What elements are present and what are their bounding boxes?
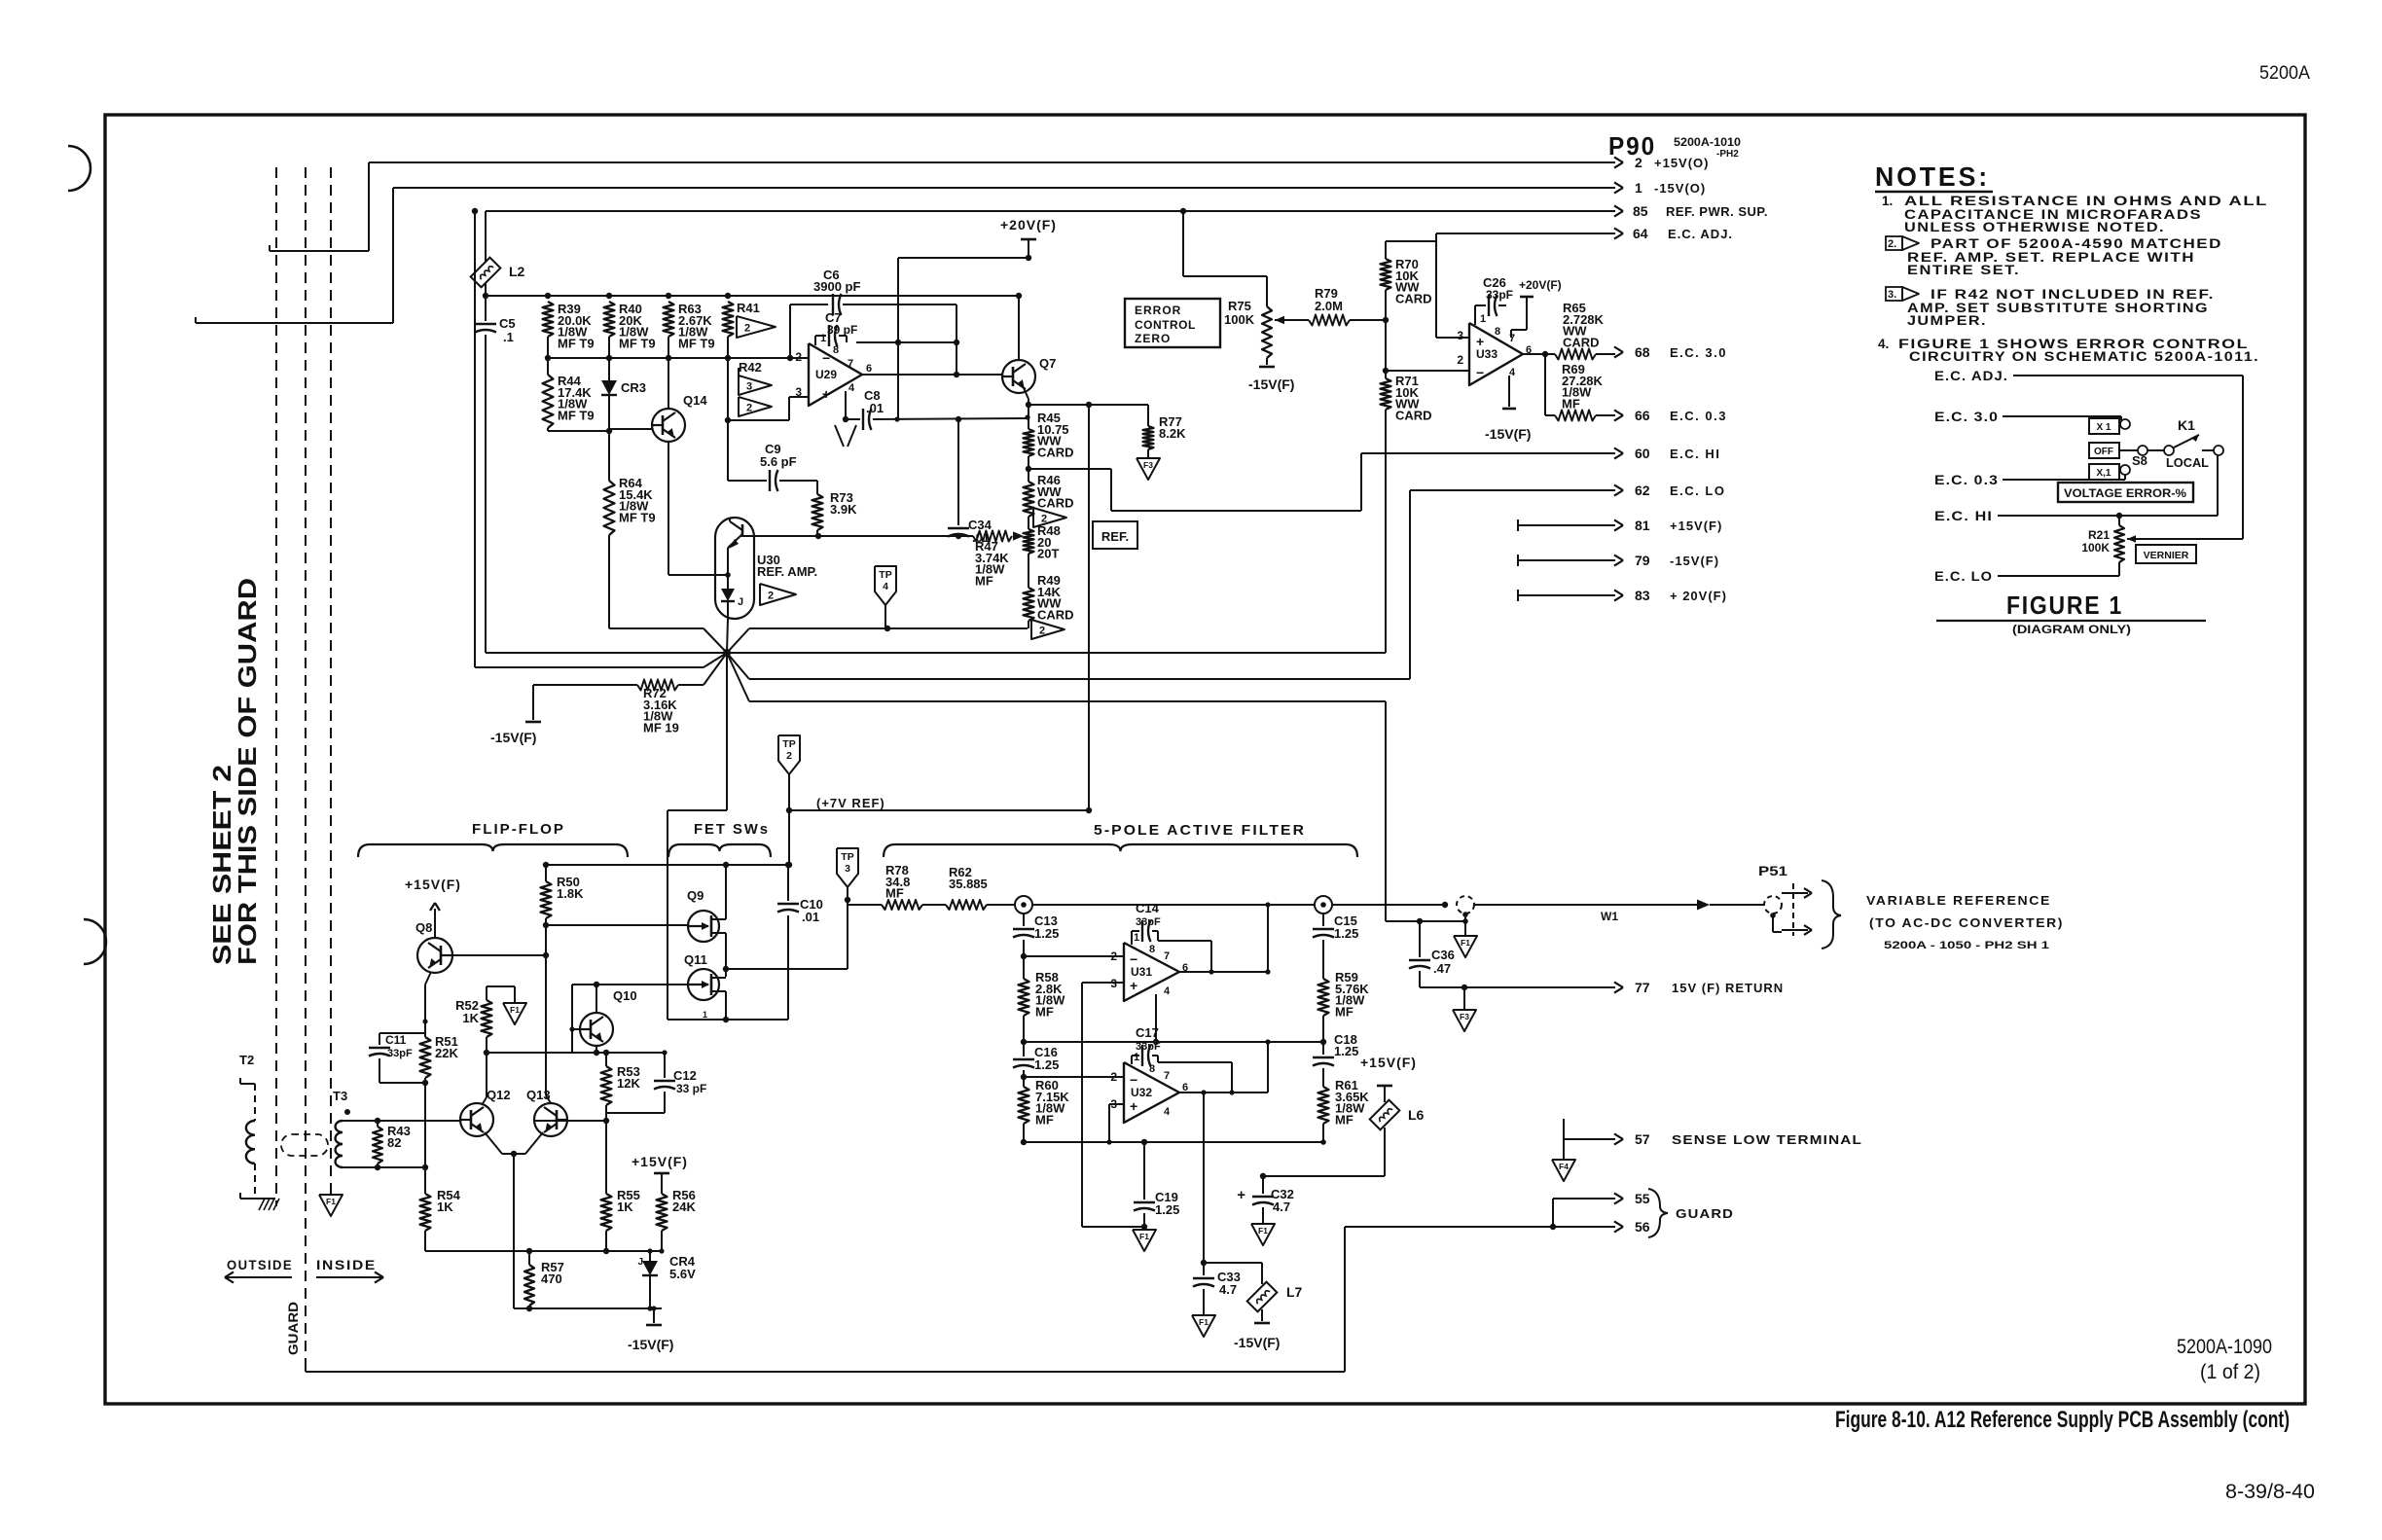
svg-text:T3: T3: [333, 1089, 347, 1103]
guard wire from bottom: [1345, 1226, 1553, 1228]
svg-text:+20V(F): +20V(F): [1000, 217, 1057, 233]
ground under U29: [835, 425, 844, 447]
svg-text:E.C. 0.3: E.C. 0.3: [1670, 409, 1727, 423]
svg-text:8: 8: [1149, 944, 1155, 955]
svg-text:REF. PWR. SUP.: REF. PWR. SUP.: [1666, 204, 1768, 219]
svg-text:33pF: 33pF: [1136, 1041, 1161, 1053]
transistor Q14: [652, 409, 685, 442]
svg-text:7: 7: [1509, 333, 1515, 344]
svg-text:+: +: [1130, 1098, 1137, 1114]
pot R75: [1266, 276, 1268, 306]
svg-text:1: 1: [1134, 1052, 1139, 1063]
svg-text:R75: R75: [1228, 299, 1251, 313]
svg-text:TP: TP: [782, 738, 795, 750]
inside arrow: [316, 1276, 381, 1278]
note 2 flag: [1886, 236, 1902, 250]
resistor R46: [1024, 482, 1034, 517]
svg-text:55: 55: [1635, 1191, 1650, 1206]
svg-text:F1: F1: [1258, 1226, 1268, 1236]
svg-text:ERROR: ERROR: [1135, 304, 1181, 317]
guard bottom wire: [305, 1361, 307, 1372]
svg-text:J: J: [637, 1257, 643, 1268]
capacitor C10 .01: [777, 903, 799, 905]
svg-text:F1: F1: [326, 1197, 336, 1206]
svg-text:−: −: [1130, 951, 1137, 967]
P90 pin 1 arrow: [1614, 182, 1623, 188]
transistor Q12: [460, 1103, 493, 1136]
svg-text:39 pF: 39 pF: [827, 323, 857, 337]
wire to P90 pin 2 +15V(O): [269, 245, 271, 251]
ground F1 under C33: [1192, 1315, 1215, 1337]
svg-text:C12: C12: [673, 1068, 697, 1083]
svg-text:4: 4: [848, 382, 855, 394]
stage link wire: [1024, 1041, 1323, 1043]
emitter node wire: [1029, 404, 1148, 406]
U30 base entry from Q14: [668, 574, 728, 576]
svg-text:Q14: Q14: [683, 393, 707, 408]
T3 base wire: [343, 1120, 460, 1122]
U32 output down riser: [1203, 1092, 1205, 1263]
P90 pin 68 arrow: [1614, 346, 1623, 352]
svg-text:1K: 1K: [462, 1011, 479, 1025]
svg-text:+15V(F): +15V(F): [1670, 519, 1722, 533]
Q13 base wire: [534, 1120, 606, 1122]
svg-text:33pF: 33pF: [387, 1048, 413, 1059]
FLIP-FLOP brace: [358, 844, 628, 857]
svg-text:+15V(F): +15V(F): [632, 1154, 688, 1169]
svg-text:X 1: X 1: [2096, 422, 2111, 433]
svg-text:5.6V: 5.6V: [669, 1267, 696, 1281]
svg-text:66: 66: [1635, 408, 1650, 423]
wire U30 to star east 646: [609, 627, 704, 629]
svg-text:2: 2: [746, 403, 752, 414]
resistor R56: [657, 1194, 668, 1231]
svg-text:+15V(F): +15V(F): [1360, 1055, 1417, 1070]
svg-text:ENTIRE SET.: ENTIRE SET.: [1907, 263, 2020, 277]
page border frame: [105, 115, 2305, 1404]
pot R21: [2118, 516, 2120, 525]
svg-text:L6: L6: [1408, 1107, 1425, 1123]
resistor R71: [1385, 371, 1387, 378]
shield junction B: [1315, 896, 1332, 913]
star junction node: [723, 649, 731, 657]
U31 pin4 drop: [1155, 994, 1157, 1042]
resistor R45: [1028, 405, 1029, 429]
resistor R77: [1147, 405, 1149, 426]
FET Q9: [688, 911, 719, 942]
resistor R78: [848, 904, 882, 906]
svg-text:62: 62: [1635, 483, 1650, 498]
svg-text:2: 2: [768, 591, 774, 602]
svg-text:FLIP-FLOP: FLIP-FLOP: [472, 821, 565, 838]
X.1 switch box: [2089, 464, 2119, 480]
op-amp U29: [809, 343, 862, 406]
U31 inverting input wire: [1024, 955, 1124, 957]
capacitor C17 33pF: [1132, 1055, 1139, 1057]
main signal line: [1032, 904, 1315, 906]
R75 top riser to 85 wire: [1183, 275, 1267, 277]
svg-text:MF: MF: [885, 886, 904, 901]
wire 64 E.C. ADJ: [1436, 233, 1615, 234]
capacitor C6 3900pF feedback: [790, 304, 828, 305]
U31 pin3 riser: [1082, 982, 1124, 984]
ERROR CONTROL ZERO box: [1125, 299, 1220, 347]
Q10 emitter to bus: [595, 1046, 597, 1053]
capacitor C14 33pF: [1132, 930, 1139, 932]
star east 698 wire to E.C. LO: [727, 653, 749, 679]
svg-text:24K: 24K: [672, 1200, 696, 1214]
U29 output wire to Q7: [862, 374, 1002, 376]
svg-text:E.C. LO: E.C. LO: [1934, 568, 1993, 584]
E.C. HI wire from divider: [1029, 468, 1111, 470]
svg-text:1: 1: [1134, 932, 1139, 944]
op-amp U32: [1124, 1062, 1179, 1123]
svg-text:CARD: CARD: [1563, 335, 1600, 349]
svg-text:8: 8: [1495, 326, 1500, 338]
capacitor C13: [1023, 913, 1025, 926]
55 56 guard wires: [1553, 1198, 1615, 1200]
filter bottom wire: [1024, 1141, 1323, 1143]
svg-text:L2: L2: [509, 264, 525, 279]
-15V(F) terminal left: [532, 685, 534, 720]
svg-text:4: 4: [1509, 367, 1516, 378]
resistor R52 to ground: [487, 985, 515, 987]
svg-text:C11: C11: [385, 1033, 407, 1047]
zener CR4: [649, 1251, 651, 1261]
svg-text:.47: .47: [1433, 961, 1451, 976]
guard shield dashed line outer: [275, 167, 277, 1206]
note 3 flag: [1886, 287, 1902, 301]
svg-text:2: 2: [1039, 626, 1045, 637]
resistor R39: [543, 302, 554, 337]
svg-text:Q8: Q8: [415, 920, 432, 935]
U31 feedback loop: [1158, 940, 1211, 942]
svg-text:K1: K1: [2178, 417, 2195, 433]
svg-text:C17: C17: [1136, 1025, 1159, 1040]
svg-text:3: 3: [1457, 329, 1463, 342]
svg-text:C36: C36: [1431, 948, 1455, 962]
diode CR3: [608, 358, 610, 380]
svg-text:2: 2: [1110, 1070, 1117, 1084]
svg-text:+20V(F): +20V(F): [1519, 278, 1562, 292]
svg-text:OFF: OFF: [2094, 447, 2113, 457]
svg-text:2: 2: [795, 350, 802, 364]
svg-text:FOR THIS SIDE OF GUARD: FOR THIS SIDE OF GUARD: [233, 578, 262, 965]
svg-text:3900 pF: 3900 pF: [813, 279, 860, 294]
svg-text:C14: C14: [1136, 901, 1160, 915]
capacitor C7 39pF: [815, 335, 826, 337]
svg-text:1K: 1K: [437, 1200, 453, 1214]
svg-text:83: 83: [1635, 588, 1650, 603]
svg-text:85: 85: [1633, 203, 1648, 219]
svg-text:2.0M: 2.0M: [1315, 299, 1343, 313]
svg-text:1: 1: [1635, 180, 1642, 196]
svg-text:+15V(O): +15V(O): [1654, 156, 1710, 170]
svg-text:GUARD: GUARD: [285, 1302, 301, 1355]
svg-text:6: 6: [866, 363, 872, 375]
capacitor C12 33pF: [664, 1053, 666, 1078]
svg-text:FET SWs: FET SWs: [694, 821, 770, 838]
Q12 Q13 emitter join: [485, 1132, 502, 1154]
inner box left riser: [474, 212, 476, 667]
P90 pin 66 arrow: [1614, 410, 1623, 415]
resistor R58: [1023, 956, 1025, 979]
svg-text:1.25: 1.25: [1334, 926, 1358, 941]
svg-text:MF: MF: [1562, 396, 1580, 411]
transistor Q10: [580, 1013, 613, 1046]
shield junction A: [1015, 896, 1032, 913]
svg-text:U31: U31: [1131, 965, 1152, 979]
OFF switch box: [2089, 443, 2119, 458]
svg-text:E.C. ADJ.: E.C. ADJ.: [1668, 227, 1733, 241]
svg-text:CONTROL: CONTROL: [1135, 318, 1196, 332]
capacitor C15: [1322, 913, 1324, 926]
svg-text:81: 81: [1635, 518, 1650, 533]
svg-text:77: 77: [1635, 980, 1650, 995]
VOLTAGE ERROR box: [2058, 483, 2193, 502]
svg-text:+: +: [822, 386, 830, 402]
Q8 base wire: [452, 954, 546, 956]
capacitor C5: [485, 296, 487, 321]
svg-text:CARD: CARD: [1037, 607, 1074, 622]
svg-text:MF T9: MF T9: [558, 408, 595, 422]
svg-text:57: 57: [1635, 1131, 1650, 1147]
svg-text:7: 7: [1164, 950, 1170, 962]
capacitor C26 33pF: [1475, 304, 1486, 306]
flip-flop bottom bus: [425, 1250, 662, 1252]
svg-text:F3: F3: [1143, 460, 1153, 470]
U33 inverting input wire: [1385, 320, 1387, 371]
57 sense low terminal: [1563, 1119, 1565, 1160]
main top rail: [486, 295, 1019, 297]
op-amp U33: [1469, 323, 1523, 385]
svg-text:F1: F1: [1461, 938, 1470, 948]
P90 pin 64 arrow: [1614, 228, 1623, 233]
outside arrow: [227, 1276, 292, 1278]
resistor R53: [605, 1053, 607, 1066]
resistor R60: [1023, 1077, 1025, 1087]
ground F1 under C19: [1143, 1227, 1145, 1230]
-15V(F) under R75: [1259, 366, 1275, 369]
svg-text:1.: 1.: [1882, 194, 1893, 208]
svg-text:20T: 20T: [1037, 547, 1059, 561]
ground F1 at output: [1464, 914, 1466, 936]
svg-text:F1: F1: [1139, 1232, 1149, 1241]
svg-text:+ 20V(F): + 20V(F): [1670, 589, 1727, 603]
svg-text:Q10: Q10: [613, 988, 637, 1003]
svg-text:T2: T2: [239, 1053, 254, 1067]
svg-text:MF: MF: [1035, 1112, 1054, 1127]
svg-text:Q13: Q13: [526, 1088, 551, 1102]
capacitor C11 33pF: [379, 1032, 425, 1034]
svg-text:MF T9: MF T9: [619, 336, 656, 350]
svg-text:2: 2: [1110, 949, 1117, 963]
wire to P90 pin 1 -15V(O): [195, 317, 197, 323]
transistor Q7: [1002, 360, 1035, 393]
flip-flop top rail: [546, 864, 789, 866]
svg-text:1: 1: [1480, 313, 1486, 325]
capacitor C33 4.7: [1193, 1277, 1214, 1279]
svg-text:7: 7: [848, 358, 853, 370]
svg-text:OUTSIDE: OUTSIDE: [227, 1257, 293, 1272]
svg-text:470: 470: [541, 1271, 562, 1286]
svg-text:REF. AMP.: REF. AMP.: [757, 564, 817, 579]
svg-text:REF.: REF.: [1101, 529, 1129, 544]
resistor R54: [420, 1194, 431, 1231]
test point TP3: [837, 848, 858, 887]
svg-text:79: 79: [1635, 553, 1650, 568]
guard shield dashed line middle: [305, 167, 307, 1361]
svg-text:3.9K: 3.9K: [830, 502, 857, 517]
svg-text:MF: MF: [1035, 1004, 1054, 1019]
svg-text:82: 82: [387, 1135, 401, 1150]
svg-text:8: 8: [833, 344, 839, 356]
U29 inverting input rail: [548, 357, 809, 359]
svg-text:CIRCUITRY ON SCHEMATIC 5200: CIRCUITRY ON SCHEMATIC 5200A-1011.: [1909, 349, 2259, 364]
svg-text:(+7V REF): (+7V REF): [816, 796, 885, 810]
svg-text:.1: .1: [503, 330, 514, 344]
P51 brace: [1822, 880, 1841, 949]
svg-text:MF: MF: [1335, 1112, 1353, 1127]
C36 / 77 return junction: [1386, 920, 1465, 922]
svg-text:8.2K: 8.2K: [1159, 426, 1186, 441]
svg-text:56: 56: [1635, 1219, 1650, 1235]
svg-text:Q11: Q11: [684, 952, 707, 967]
svg-text:(1 of 2): (1 of 2): [2200, 1361, 2260, 1383]
transistor Q13: [534, 1103, 567, 1136]
svg-text:TP: TP: [879, 569, 891, 581]
guard shield dashed line inner: [330, 167, 332, 1189]
svg-text:1.25: 1.25: [1034, 1057, 1059, 1072]
svg-text:ZERO: ZERO: [1135, 332, 1171, 345]
svg-text:4: 4: [1164, 985, 1171, 997]
svg-text:7: 7: [1164, 1070, 1170, 1082]
svg-text:+: +: [1237, 1187, 1245, 1203]
svg-text:L7: L7: [1286, 1284, 1303, 1300]
P90 pin 81 stub: [1518, 524, 1615, 526]
shield connector dashed: [1457, 896, 1474, 913]
resistor R64: [608, 431, 610, 481]
svg-text:2: 2: [1457, 353, 1463, 367]
svg-text:4.: 4.: [1878, 337, 1889, 351]
Q9 gate wire: [546, 924, 688, 926]
P90 pin 60 arrow: [1614, 448, 1623, 453]
-15V(F) terminal bottom: [653, 1308, 655, 1323]
guard cable dashed capsule: [281, 1134, 328, 1156]
P51 interface lines: [1772, 915, 1774, 932]
5-pole filter brace: [884, 844, 1357, 857]
svg-text:4: 4: [883, 581, 888, 592]
U30 collector wire and R47: [754, 535, 973, 537]
svg-text:35.885: 35.885: [949, 877, 988, 891]
svg-text:12K: 12K: [617, 1076, 640, 1091]
svg-text:F1: F1: [510, 1005, 520, 1015]
FET Q11: [688, 969, 719, 1000]
svg-text:1: 1: [820, 333, 826, 344]
svg-text:4.7: 4.7: [1219, 1282, 1237, 1297]
svg-text:J: J: [738, 596, 743, 608]
FET SWs brace: [668, 844, 771, 857]
ground F3 below: [1463, 987, 1465, 1010]
ground F3 under R77: [1137, 458, 1160, 480]
svg-text:JUMPER.: JUMPER.: [1907, 313, 1987, 328]
svg-text:IF R42 NOT INCLUDED IN RE: IF R42 NOT INCLUDED IN REF.: [1931, 287, 2215, 302]
svg-text:33pF: 33pF: [1136, 916, 1161, 928]
P90 pin 79 stub: [1518, 559, 1615, 561]
op-amp U31: [1124, 943, 1179, 1001]
svg-text:P51: P51: [1758, 863, 1787, 878]
svg-text:U32: U32: [1131, 1086, 1152, 1099]
svg-text:1.25: 1.25: [1334, 1044, 1358, 1058]
svg-text:2: 2: [786, 750, 792, 762]
star through wire 671: [486, 652, 1386, 654]
svg-text:PART OF 5200A-4590 MATCHED: PART OF 5200A-4590 MATCHED: [1931, 236, 2222, 251]
punch hole marks: [68, 146, 90, 191]
svg-text:MF T9: MF T9: [678, 336, 715, 350]
P90 pin 85 arrow: [1614, 205, 1623, 211]
svg-text:3: 3: [845, 863, 850, 875]
capacitor C9 5.6pF: [728, 480, 767, 482]
svg-text:E.C. ADJ.: E.C. ADJ.: [1934, 368, 2008, 383]
svg-text:CARD: CARD: [1395, 291, 1432, 305]
capacitor C16: [1023, 1042, 1025, 1057]
guard brace: [1648, 1189, 1668, 1237]
resistor R61: [1318, 1087, 1329, 1124]
svg-text:TP: TP: [841, 851, 853, 863]
test point TP2: [778, 735, 800, 774]
svg-text:VOLTAGE ERROR-%: VOLTAGE ERROR-%: [2064, 486, 2186, 500]
svg-text:VARIABLE REFERENCE: VARIABLE REFERENCE: [1866, 893, 2051, 908]
svg-text:4.7: 4.7: [1273, 1200, 1290, 1214]
resistor R62: [922, 904, 946, 906]
svg-text:SENSE LOW TERMINAL: SENSE LOW TERMINAL: [1672, 1132, 1862, 1147]
resistor R65: [1555, 349, 1596, 360]
svg-text:F1: F1: [1199, 1317, 1209, 1327]
svg-text:-15V(F): -15V(F): [1485, 426, 1531, 442]
77 15V(F) RETURN wire: [1420, 986, 1615, 988]
guard ground F1 under T3: [330, 1189, 332, 1195]
resistor R44: [543, 375, 554, 428]
P90 pin 62 arrow: [1614, 484, 1623, 490]
svg-text:(DIAGRAM ONLY): (DIAGRAM ONLY): [2012, 623, 2131, 636]
flip-flop mid bus: [487, 1052, 665, 1054]
resistor R69: [1544, 354, 1546, 415]
U33 pin4 to -15V(F): [1508, 376, 1510, 407]
svg-text:33 pF: 33 pF: [676, 1082, 706, 1095]
inductor L2: [485, 211, 487, 262]
svg-text:1.8K: 1.8K: [557, 886, 584, 901]
ground F1 under C32: [1251, 1224, 1275, 1245]
svg-text:INSIDE: INSIDE: [316, 1257, 377, 1272]
svg-text:5200A - 1050 - PH2 SH 1: 5200A - 1050 - PH2 SH 1: [1884, 940, 2049, 951]
svg-text:CARD: CARD: [1037, 496, 1074, 511]
inductor L6: [1370, 1100, 1400, 1130]
svg-text:P90: P90: [1608, 131, 1656, 161]
svg-text:−: −: [822, 350, 830, 366]
wire W1: [1474, 904, 1700, 906]
svg-text:-15V(F): -15V(F): [628, 1337, 673, 1352]
svg-text:3.: 3.: [1888, 289, 1896, 301]
svg-text:2: 2: [1635, 155, 1642, 170]
capacitor C34: [957, 419, 959, 525]
svg-text:5-POLE ACTIVE FILTER: 5-POLE ACTIVE FILTER: [1094, 822, 1306, 839]
svg-text:CARD: CARD: [1037, 445, 1074, 459]
capacitor C32 4.7 polarized: [1262, 1176, 1264, 1194]
transistor Q8 (mirrored): [417, 938, 452, 973]
resistor R59: [1318, 979, 1329, 1016]
Q8 emitter chain: [425, 972, 431, 985]
svg-text:−: −: [1130, 1072, 1137, 1088]
